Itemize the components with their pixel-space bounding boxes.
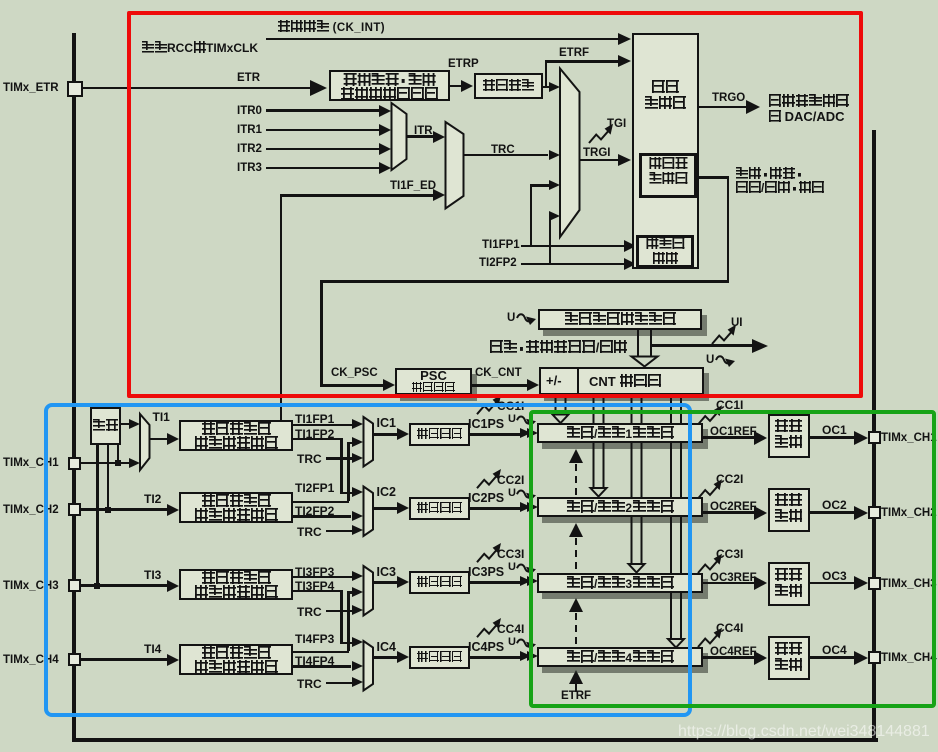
- text prescaler ch2: [417, 502, 463, 515]
- wire pair compare reg3 upper: [632, 396, 642, 423]
- label TI3FP3: [295, 566, 334, 579]
- wire TI1FP1: [293, 424, 354, 427]
- wire cross34 FPb to mux: [340, 642, 354, 645]
- label TIMx_CH4 (left): [3, 654, 59, 666]
- text input filter ch2 line2: [194, 508, 278, 523]
- block: output control ch4: [768, 636, 810, 680]
- text capture/compare 1: [566, 426, 674, 441]
- zigzag arrow CC1I left: [477, 395, 501, 414]
- label CK_PSC: [331, 367, 378, 379]
- text PSC: [420, 369, 447, 383]
- junction XOR/CH1: [115, 460, 121, 466]
- label IC1PS: [468, 418, 504, 431]
- wire TI2: [81, 508, 167, 511]
- wire CK_CNT: [472, 384, 528, 387]
- wire ITR3: [266, 167, 379, 170]
- label TI2: [144, 493, 161, 506]
- label TGI: [607, 118, 626, 130]
- mux: IC4 select: [364, 641, 374, 691]
- arrowhead TI1 into filter: [167, 433, 179, 445]
- wire ITR1: [266, 129, 379, 132]
- label CC4I (left): [497, 623, 524, 636]
- label OC1: [822, 424, 847, 437]
- pad TIMx_CH2 (right): [868, 506, 881, 519]
- text auto-reload register: [564, 312, 676, 327]
- wire ETRF stub right: [543, 86, 549, 89]
- label TI4FP4: [295, 655, 334, 668]
- label internal clock (CK_INT): [277, 20, 385, 34]
- text trigger controller line1: [651, 80, 679, 95]
- label IC3PS: [468, 566, 504, 579]
- wire pair compare reg2 lower: [594, 442, 604, 485]
- text reset enable line2: [735, 181, 825, 195]
- squiggle arrow U row2: [517, 490, 536, 501]
- wire pair compare reg4 mid1: [671, 442, 681, 497]
- squiggle arrow U row3: [517, 564, 536, 575]
- arrowhead OC3REF: [754, 576, 767, 590]
- wire OC3: [810, 582, 855, 585]
- wire cross12 FPb to mux: [340, 492, 354, 495]
- text XOR: [93, 419, 119, 433]
- wire IC1: [373, 433, 397, 436]
- block: PSC prescaler: [395, 368, 472, 395]
- arrowhead TI3 into filter: [167, 580, 179, 592]
- mux: ITR select: [392, 103, 407, 170]
- arrowhead IC4PS a: [520, 651, 531, 661]
- arrowhead IC1PS b: [527, 428, 538, 438]
- arrowhead IC3PS b: [527, 576, 538, 586]
- label OC4: [822, 644, 847, 657]
- pad TIMx_CH4: [68, 653, 81, 666]
- label TIMx_CH3 (left): [3, 580, 59, 592]
- arrowhead cross12 FPa: [352, 437, 363, 447]
- label U row4: [508, 637, 516, 649]
- pad TIMx_CH1: [68, 457, 81, 470]
- text capture/compare 4: [566, 650, 674, 665]
- squiggle arrow U update out: [716, 356, 735, 367]
- block: input filter & edge detector ch4: [179, 644, 293, 675]
- label ITR2: [237, 143, 262, 155]
- arrowhead ITR2: [379, 143, 391, 155]
- wire pair compare reg4 mid2: [671, 516, 681, 574]
- annotation rectangle red (clock/trigger section): [127, 11, 863, 398]
- text capture/compare 2: [566, 500, 674, 515]
- label TIMx_CH4 (right): [881, 652, 937, 664]
- block: input filter & edge detector ch3: [179, 569, 293, 600]
- label U row1: [508, 414, 516, 426]
- divider in CNT box: [577, 368, 579, 394]
- text encoder line1: [646, 237, 685, 251]
- label TRC row1: [297, 453, 322, 466]
- arrowhead TRC row2: [352, 525, 363, 535]
- label TI1FP1: [295, 413, 334, 426]
- block: XOR: [90, 407, 121, 445]
- hollow arrow into reg3: [629, 560, 645, 573]
- label ITR0: [237, 105, 262, 117]
- zigzag arrow CC2I right: [698, 479, 722, 498]
- label ITR3: [237, 162, 262, 174]
- block: trigger controller: [632, 33, 699, 269]
- watermark: [678, 724, 930, 741]
- text output control ch3 line1: [775, 568, 803, 583]
- arrowhead OC4REF: [754, 651, 767, 665]
- arrowhead CK_CNT: [527, 379, 539, 391]
- wire TI1: [150, 438, 168, 441]
- pad TIMx_CH3 (right): [868, 577, 881, 590]
- wire IC2PS: [470, 507, 520, 510]
- wire IC4: [373, 656, 397, 659]
- arrowhead TRC row3: [352, 605, 363, 615]
- wire IC4PS: [470, 656, 520, 659]
- wire IC2: [373, 507, 397, 510]
- wire TI1FP1 to mux: [530, 184, 549, 187]
- label TIMx_CH2 (left): [3, 504, 59, 516]
- label TI2FP2 stub: [479, 257, 517, 269]
- label TI4FP3: [295, 633, 334, 646]
- text output control ch4 line2: [775, 658, 803, 673]
- label CC1I (right): [716, 399, 743, 412]
- label CC3I (left): [497, 548, 524, 561]
- mux: TRC select: [446, 122, 464, 209]
- wire TI2FP2: [293, 515, 351, 518]
- wire ETR: [82, 87, 310, 90]
- arrowhead TI1F_ED into TRC mux: [433, 189, 445, 201]
- text slave mode line2: [649, 172, 688, 186]
- arrowhead OC3: [854, 576, 868, 590]
- wire: left input bus: [72, 33, 76, 742]
- text to DAC/ADC: [768, 110, 845, 124]
- wire pair compare reg4 lower: [671, 592, 681, 635]
- arrowhead ETRF into reg4: [569, 670, 583, 684]
- label U row3: [508, 562, 516, 574]
- wire cross12 FPb drop: [340, 438, 343, 492]
- label OC2: [822, 499, 847, 512]
- text input filter ch1 line1: [201, 422, 271, 437]
- dashed capture line seg1: [575, 452, 577, 496]
- arrowhead IC2PS a: [520, 502, 531, 512]
- block: CNT counter: [539, 367, 704, 395]
- arrowhead TI2FP2 into encoder: [624, 258, 636, 270]
- text reset enable line1: [735, 167, 803, 181]
- wire cross34 FPa horiz: [293, 651, 349, 654]
- pad TIMx_CH3: [68, 579, 81, 592]
- junction XOR/CH3: [94, 583, 100, 589]
- block: output control ch2: [768, 488, 810, 532]
- label +/-: [546, 374, 562, 388]
- text output control ch2 line1: [775, 493, 803, 508]
- block: input filter & edge detector ch1: [179, 420, 293, 451]
- wire IC3PS: [470, 581, 520, 584]
- arrowhead OC4: [854, 651, 868, 665]
- block: output control ch3: [768, 562, 810, 606]
- arrowhead IC3 into prescaler: [397, 576, 409, 588]
- arrowhead IC4 into prescaler: [397, 651, 409, 663]
- label from RCC TIMxCLK: [141, 41, 258, 55]
- arrowhead TI4 into filter: [167, 654, 179, 666]
- label CK_CNT: [475, 367, 522, 379]
- wire pair compare reg2 upper: [594, 396, 604, 423]
- junction XOR/CH2: [105, 507, 111, 513]
- arrowhead OC1REF: [754, 431, 767, 445]
- text output control ch2 line2: [775, 509, 803, 524]
- label IC4: [377, 641, 396, 654]
- arrowhead cross34 FPa: [352, 587, 363, 597]
- wire OC2REF: [703, 511, 754, 514]
- label IC2: [377, 486, 396, 499]
- wire OC1: [810, 436, 855, 439]
- label CC1I (left): [497, 400, 524, 413]
- arrowhead ITR1: [379, 124, 391, 136]
- wire cross34 FPb horiz: [293, 590, 342, 593]
- pad TIMx_ETR: [67, 81, 83, 97]
- text input filter ch3 line1: [201, 571, 271, 586]
- arrowhead XOR out into TI1 mux: [129, 419, 140, 429]
- wire TRGO: [698, 106, 747, 109]
- label OC2REF: [710, 501, 757, 513]
- label TRC (top): [491, 144, 515, 156]
- arrowhead TRC row1: [352, 453, 363, 463]
- text to other timers: [768, 94, 849, 108]
- arrowhead ETRP: [461, 80, 473, 92]
- arrowhead TI4FP4 into IC4 mux: [352, 661, 363, 671]
- wire: bottom bus: [72, 738, 878, 742]
- label CC2I (left): [497, 474, 524, 487]
- wire TI1FP1 rise: [530, 184, 533, 246]
- block: auto-reload register: [538, 309, 702, 330]
- wire XOR stub to CH1: [117, 445, 120, 462]
- text encoder line2: [652, 252, 678, 266]
- label TIMx_ETR: [3, 82, 59, 94]
- wire OC1REF: [703, 436, 754, 439]
- wire TI2FP2 to mux: [549, 215, 553, 218]
- arrowhead TI2FP2 into IC2 mux: [352, 511, 363, 521]
- label ETRP: [448, 58, 479, 70]
- label TI3: [144, 569, 161, 582]
- text polarity select line1: [343, 73, 436, 88]
- text output control ch3 line2: [775, 584, 803, 599]
- label TIMx_CH2 (right): [881, 507, 937, 519]
- hollow arrow into reg1: [553, 411, 569, 423]
- arrowhead ETRF into trigger controller: [618, 55, 631, 67]
- wire pair compare reg3 mid: [632, 442, 642, 497]
- arrowhead IC1 into prescaler: [397, 428, 409, 440]
- label UI: [731, 317, 743, 329]
- arrowhead TRGI into trigger controller: [618, 154, 631, 166]
- zigzag arrow CC4I left: [477, 618, 501, 637]
- wire TRGI: [580, 159, 620, 162]
- pad TIMx_CH4 (right): [868, 651, 881, 664]
- wire cross12 FPb horiz: [293, 438, 342, 441]
- label U row2: [508, 488, 516, 500]
- block: prescaler ch4: [409, 646, 471, 669]
- arrowhead cross12 FPb: [352, 487, 363, 497]
- label OC1REF: [710, 426, 757, 438]
- text prescaler ch4: [417, 651, 463, 664]
- label ETR: [237, 72, 260, 84]
- label TI1F_ED: [390, 180, 436, 192]
- label TI1FP2: [295, 428, 334, 441]
- wire TI1FP1 stub: [521, 245, 624, 248]
- wire TI4: [81, 658, 167, 661]
- wire ETR to ETRP: [450, 85, 462, 88]
- arrowhead ETR: [310, 80, 327, 96]
- wire ITR out: [407, 135, 434, 138]
- wire TI2FP2 stub: [521, 263, 624, 266]
- arrowhead OC2REF: [754, 506, 767, 520]
- arrowhead capture up into reg3: [569, 598, 583, 612]
- wire TRC row1: [326, 457, 352, 460]
- label OC3REF: [710, 572, 757, 584]
- wire XOR stub to CH3: [96, 445, 99, 586]
- arrowhead update event: [752, 339, 768, 353]
- wire TI3FP3: [293, 576, 354, 579]
- text trigger controller line2: [644, 96, 686, 111]
- wire cross12 FPa horiz: [293, 501, 349, 504]
- text prescaler ch1: [417, 428, 463, 441]
- wire pair compare reg3 lower: [632, 516, 642, 561]
- pad TIMx_CH1 (right): [868, 431, 881, 444]
- squiggle arrow U row4: [517, 639, 536, 650]
- block: input filter & edge detector ch2: [179, 492, 293, 523]
- wire cross12 FPa to mux: [347, 442, 354, 445]
- wire CK_PSC horizontal: [320, 280, 729, 283]
- text capture/compare 3: [566, 576, 674, 591]
- text output control ch4 line1: [775, 642, 803, 657]
- block: capture/compare register 4: [537, 647, 703, 667]
- label TRGI: [583, 147, 610, 159]
- arrowhead IC2PS b: [527, 502, 538, 512]
- text input filter ch3 line2: [194, 585, 278, 600]
- label IC3: [377, 566, 396, 579]
- text input filter ch2 line1: [201, 494, 271, 509]
- block: capture/compare register 3: [537, 573, 703, 593]
- label ITR: [414, 125, 433, 137]
- text prescaler ch3: [417, 576, 463, 589]
- arrowhead CK_PSC: [383, 379, 395, 391]
- zigzag arrow CC4I right: [698, 628, 722, 647]
- wire XOR out: [121, 423, 129, 426]
- label ETRF (bottom): [561, 690, 591, 702]
- label IC2PS: [468, 492, 504, 505]
- wire ETRF rise: [545, 60, 548, 87]
- wire TRC out: [464, 154, 548, 157]
- arrowhead IC3PS a: [520, 576, 531, 586]
- wire TI1F_ED horizontal: [280, 194, 434, 197]
- block: prescaler ch2: [409, 497, 471, 520]
- label IC4PS: [468, 641, 504, 654]
- wire IC3: [373, 581, 397, 584]
- annotation rectangle green (output compare section): [529, 410, 936, 708]
- wire XOR stub to CH2: [107, 445, 110, 510]
- hollow arrow into reg4: [668, 634, 684, 648]
- wire pair compare reg4 upper: [671, 396, 681, 423]
- label TIMx_CH1 (left): [3, 457, 59, 469]
- pad TIMx_CH2: [68, 503, 81, 516]
- wire OC4REF: [703, 656, 754, 659]
- wire cross34 FPa to mux: [347, 591, 354, 594]
- squiggle arrow U row1: [517, 416, 536, 427]
- hollow arrow auto-reload to CNT: [632, 330, 658, 367]
- label TI1FP1 stub: [482, 239, 520, 251]
- arrowhead CK_INT into trigger controller: [618, 33, 631, 45]
- label CC4I (right): [716, 622, 743, 635]
- label ITR1: [237, 124, 262, 136]
- annotation rectangle blue (input capture section): [44, 403, 692, 717]
- arrowhead OC2: [854, 506, 868, 520]
- wire slave-mode out: [697, 176, 729, 179]
- arrowhead TI3FP3 into IC3 mux: [352, 571, 363, 581]
- wire ITR0: [266, 109, 379, 112]
- wire: right output bus: [872, 130, 876, 742]
- mux: IC2 select: [364, 487, 374, 537]
- label TI4: [144, 643, 161, 656]
- dashed capture line seg3: [575, 601, 577, 646]
- arrowhead capture up into reg2: [569, 523, 583, 537]
- label TI2FP1: [295, 482, 334, 495]
- block: prescaler ch3: [409, 571, 471, 594]
- arrowhead TRC into trigger mux: [549, 150, 560, 160]
- mux: TI1 select: [140, 414, 150, 470]
- block: slave mode controller: [639, 153, 697, 198]
- wire OC2: [810, 511, 855, 514]
- arrowhead ITR0: [379, 105, 391, 117]
- arrowhead TRGO: [746, 100, 760, 114]
- label ETRF: [559, 47, 589, 59]
- wire CK_INT: [266, 38, 620, 41]
- wire TI4FP4: [293, 665, 351, 668]
- text input filter ch4 line2: [194, 660, 278, 675]
- zigzag arrow UI: [712, 325, 736, 344]
- block: encoder interface: [636, 235, 694, 268]
- label TRC row4: [297, 678, 322, 691]
- text slave mode line1: [649, 157, 688, 171]
- block: input filter (ETRF): [474, 73, 543, 99]
- wire cross34 FPb drop: [340, 590, 343, 642]
- wire OC3REF: [703, 582, 754, 585]
- text input filter ch1 line2: [194, 436, 278, 451]
- wire TI3: [81, 584, 167, 587]
- arrowhead OC1: [854, 431, 868, 445]
- zigzag arrow CC3I left: [477, 543, 501, 562]
- label TIMx_CH1 (right): [881, 432, 937, 444]
- wire pair compare reg1: [556, 396, 566, 412]
- wire TRC row3: [326, 610, 352, 613]
- label U (update out): [706, 354, 714, 366]
- label CC3I (right): [716, 548, 743, 561]
- wire update event: [651, 344, 752, 347]
- zigzag arrow CC2I left: [477, 469, 501, 488]
- text output control ch1 line1: [775, 419, 803, 434]
- wire CK_PSC drop left: [320, 280, 323, 385]
- text PSC prescaler: [412, 382, 456, 395]
- zigzag arrow CC1I right: [698, 405, 722, 424]
- wire TI1F_ED vertical: [280, 194, 283, 421]
- wire IC1PS: [470, 433, 520, 436]
- wire CK_PSC drop right: [727, 176, 730, 282]
- label IC1: [377, 417, 396, 430]
- arrowhead TI2FP2 into trigger mux: [549, 211, 560, 221]
- arrowhead TI2 into filter: [167, 504, 179, 516]
- block: polarity select / edge detect & prescaler: [329, 70, 450, 101]
- label TIMx_CH3 (right): [881, 578, 937, 590]
- wire CK_PSC into PSC: [320, 384, 383, 387]
- text input filter ch4 line1: [201, 646, 271, 661]
- zigzag arrow CC3I right: [698, 554, 722, 573]
- arrowhead IC4PS b: [527, 651, 538, 661]
- squiggle arrow U into auto-reload: [517, 314, 536, 325]
- wire cross12 FPa rise: [347, 442, 350, 501]
- block: prescaler ch1: [409, 423, 471, 446]
